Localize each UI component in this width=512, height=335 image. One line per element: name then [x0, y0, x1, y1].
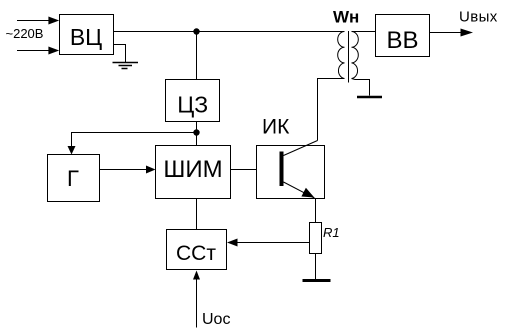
svg-text:Uос: Uос	[202, 311, 230, 328]
resistor R1	[310, 223, 322, 254]
wire: G to PWM	[100, 169, 147, 171]
wire: secondary top to VV	[352, 31, 376, 33]
transistor emitter lead	[284, 182, 316, 199]
ground under VC	[113, 63, 139, 69]
wire: junction left to generator	[72, 133, 197, 148]
wire: emitter down to R1	[315, 199, 317, 224]
wire: CZ to PWM	[196, 122, 198, 146]
wire: mains input line 2	[17, 50, 49, 52]
svg-text:~220В: ~220В	[6, 26, 44, 41]
wire: VV output	[430, 32, 463, 34]
transformer primary winding	[338, 32, 345, 79]
arrowhead into G top	[68, 146, 76, 155]
wire: R1 bottom to ground	[315, 254, 317, 281]
block VV (output rectifier)	[376, 15, 430, 57]
transistor emitter arrowhead	[301, 188, 314, 198]
block CZ	[166, 80, 220, 122]
svg-text:ВЦ: ВЦ	[70, 24, 102, 50]
svg-text:R1: R1	[323, 225, 340, 240]
ground bar under secondary	[357, 96, 382, 99]
wire: collector up to transformer primary bottom	[318, 79, 345, 141]
svg-text:ССт: ССт	[176, 242, 216, 265]
block SSt (current stabilizer)	[167, 230, 227, 270]
wire: PWM to transistor base	[231, 169, 280, 171]
arrowhead into VC input 2	[48, 47, 59, 55]
block PWM (ShIM)	[156, 146, 231, 199]
wire: mains input line 1	[17, 20, 49, 22]
wire: main top bus from VC to transformer	[114, 31, 345, 33]
junction node below CZ	[193, 129, 199, 135]
svg-text:Г: Г	[67, 166, 79, 191]
transistor collector lead	[284, 141, 318, 156]
svg-text:ИК: ИК	[262, 116, 290, 139]
wire: R1 tap to SSt	[236, 242, 310, 244]
arrowhead output Uvyh	[461, 29, 474, 37]
ground bar under R1	[303, 279, 331, 282]
arrowhead into SSt bottom	[193, 271, 200, 280]
wire: top bus down to CZ	[196, 32, 198, 80]
wire: PWM to SSt	[196, 199, 198, 230]
arrowhead into SSt right	[227, 239, 238, 247]
wire: VC to ground	[114, 45, 126, 63]
wire: secondary bottom to ground	[352, 79, 370, 96]
arrowhead into PWM left	[146, 166, 156, 174]
svg-text:ШИМ: ШИМ	[163, 156, 222, 183]
transistor base bar	[280, 152, 284, 187]
transformer secondary winding	[352, 32, 359, 79]
junction node at top bus	[193, 28, 199, 34]
svg-text:ЦЗ: ЦЗ	[177, 92, 208, 118]
wire: Uoc input to SSt	[196, 280, 198, 328]
svg-text:Wн: Wн	[333, 8, 359, 27]
transistor IK box	[257, 146, 325, 199]
svg-text:Uвых: Uвых	[459, 9, 498, 26]
block G (generator)	[48, 155, 100, 202]
block VC (input circuit)	[60, 15, 114, 55]
arrowhead into VC input 1	[48, 17, 59, 25]
svg-text:ВВ: ВВ	[386, 27, 418, 54]
transformer core	[348, 31, 350, 83]
